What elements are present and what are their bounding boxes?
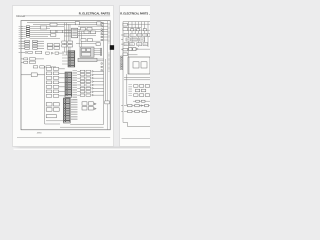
top horizontal wires right page <box>124 24 150 30</box>
label box T2 <box>123 28 127 31</box>
vertical bus grid right page <box>129 22 149 57</box>
top bus wire 2 <box>33 23 97 25</box>
right page sheet <box>120 6 151 147</box>
M2 inner block 2 <box>87 48 91 51</box>
schematic frame border <box>21 21 110 130</box>
right bus line B <box>105 59 107 101</box>
viewer background <box>0 0 150 150</box>
inner right margin line <box>107 21 109 130</box>
gray bar module M3 <box>78 58 97 61</box>
switch row B <box>19 51 42 53</box>
top bus wire 1 <box>27 22 104 24</box>
left page title R. ELECTRICAL PARTS <box>79 12 110 16</box>
right frame left border <box>122 22 124 123</box>
relay row D <box>21 61 35 63</box>
right page footer rule <box>122 138 151 140</box>
right frame stepped bottom <box>123 122 150 126</box>
black index tab <box>110 45 114 50</box>
lower mid-right cluster <box>82 102 96 110</box>
M3 wires right <box>97 59 104 61</box>
vertical drops to module <box>79 30 81 48</box>
bottom row wires 1 <box>133 100 150 102</box>
rails below module <box>124 78 150 80</box>
border label box L2 <box>123 53 128 56</box>
CN1 wires to logic <box>30 27 71 39</box>
module feed vline <box>128 57 130 74</box>
vertical bus V1 <box>44 66 46 124</box>
left page sheet <box>13 6 114 147</box>
component box K1 <box>40 26 47 29</box>
wire label column <box>73 71 78 100</box>
svg-text:R. ELECTRICAL PARTS ....: R. ELECTRICAL PARTS .... <box>120 13 150 16</box>
bottom-left wires <box>45 121 64 124</box>
border label box L1 <box>123 48 128 51</box>
bottom row 3 <box>121 110 150 112</box>
table cell text smudges <box>125 35 147 44</box>
relay row C <box>21 58 44 60</box>
right bus line A <box>103 23 105 125</box>
descending bus <box>126 74 128 105</box>
CN3 feed wires <box>62 52 68 64</box>
vertical wire bundle to CN3 <box>65 23 70 55</box>
chain row E <box>33 66 56 68</box>
big module inner block 2 <box>141 62 147 68</box>
relay pair row 2 <box>84 31 96 34</box>
mid cluster row 2 <box>135 89 145 92</box>
label box T1 <box>123 23 127 26</box>
table row 3 <box>124 43 148 46</box>
component column row group <box>46 68 65 98</box>
left page footer rule <box>17 136 110 138</box>
extra terminals right mid <box>101 63 102 71</box>
mid cluster row 1 <box>134 85 150 88</box>
sensor box S1 <box>21 73 45 77</box>
M2 terminal wires <box>94 48 102 55</box>
mid cluster row 3 <box>134 94 150 97</box>
connector CN1 pin group <box>19 27 26 39</box>
table row 2 <box>126 38 145 41</box>
paired component rows <box>77 70 103 96</box>
right frame top border <box>123 21 150 23</box>
M2 inner block 1 <box>81 48 85 51</box>
wide box W1 <box>46 115 56 118</box>
battery box on top bus <box>50 23 57 26</box>
extra top-right wires <box>76 26 100 43</box>
bottom collector wires <box>60 124 104 127</box>
connector strip CN3 <box>68 51 75 67</box>
left border ticks right page <box>121 35 123 49</box>
big module box right page <box>128 57 150 74</box>
big module inner block 1 <box>133 62 139 68</box>
connector strip CN4 <box>65 72 72 97</box>
block cluster 2x2 <box>47 44 59 50</box>
right page title <box>120 13 152 16</box>
svg-text:R. ELECTRICAL PARTS: R. ELECTRICAL PARTS <box>79 12 110 16</box>
right margin vertical notes mid <box>108 53 111 71</box>
small boxes above module <box>81 39 100 46</box>
right margin vertical notes top <box>108 24 111 44</box>
CN2 left feed wires <box>64 30 72 36</box>
header rule <box>24 15 111 17</box>
box near right border <box>105 101 110 104</box>
table row 4 <box>129 48 136 51</box>
junction box on top bus <box>75 22 79 25</box>
small labeled boxes mid rows <box>62 41 73 47</box>
next page row sliver <box>14 149 151 151</box>
lower-left component cluster <box>46 103 59 112</box>
connector CN2 <box>72 28 78 38</box>
arrow + wire row 4 <box>128 48 150 55</box>
relay box top right <box>97 22 101 25</box>
terminal column top right <box>101 23 108 41</box>
text column small <box>128 85 132 96</box>
pin strip outside left border <box>121 56 123 70</box>
bottom note text <box>37 133 42 135</box>
top small box row right page <box>131 29 147 31</box>
diode marks row <box>46 52 64 54</box>
bottom row 2 <box>121 104 150 106</box>
M2 inner block 3 <box>81 53 90 56</box>
header label Circuit <box>16 14 25 18</box>
CN2 output wires <box>78 30 101 36</box>
connector strip CN5 <box>63 98 70 123</box>
control module M2 (gray) <box>80 47 94 57</box>
inline fuse boxes on CN1 rows <box>26 26 29 38</box>
connector CN1 lower pin group <box>19 40 44 49</box>
table row 1 <box>124 34 150 37</box>
relay pair row <box>80 27 92 30</box>
svg-text:4WD: 4WD <box>37 133 42 135</box>
component cluster K2 <box>51 30 63 36</box>
CN5 wire labels <box>71 99 78 119</box>
